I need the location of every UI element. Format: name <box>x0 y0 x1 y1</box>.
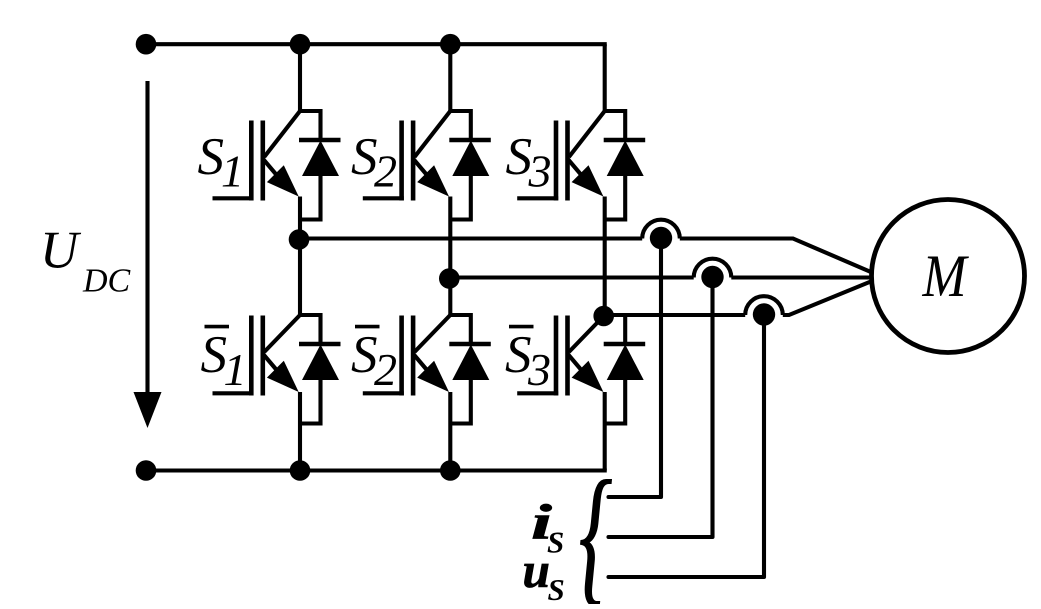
IGBT S̅2 (lower) emitter arrow <box>417 361 449 392</box>
svg-text:3: 3 <box>527 344 551 395</box>
IGBT S2 emitter line <box>414 160 431 180</box>
IGBT S3 emitter line <box>568 160 585 180</box>
diode of S̅3 (lower) triangle <box>607 345 644 381</box>
wire: phase 2 horizontal from leg 2 to sensor <box>450 275 693 279</box>
IGBT S3 collector diagonal <box>569 111 605 157</box>
IGBT S2 gate bar <box>399 121 404 201</box>
wire: leg 3 midpoint trunk (phase node) <box>603 197 607 316</box>
label S-bar 1 (overbar) <box>205 325 230 329</box>
diode of S1: top jog and anode-side wire <box>300 111 321 140</box>
IGBT S̅1 (lower) emitter line <box>264 355 281 375</box>
IGBT S̅2 (lower) collector diagonal <box>415 315 451 352</box>
wire: sensor 3 tap vertical <box>762 315 766 577</box>
IGBT S3 gate lead <box>517 196 558 200</box>
IGBT S2 gate lead <box>363 196 404 200</box>
svg-text:U: U <box>40 222 82 280</box>
wire: phase 1 horizontal from leg 1 to sensor <box>300 236 642 240</box>
svg-text:3: 3 <box>528 146 552 197</box>
svg-text:{: { <box>579 451 612 604</box>
IGBT S2 emitter arrow <box>417 165 449 196</box>
IGBT S1 collector diagonal <box>264 111 300 157</box>
diode of S̅1 (lower): bottom wire and jog back to trunk <box>300 380 321 424</box>
diode of S̅1 (lower) triangle <box>302 345 339 381</box>
wire: leg 1 midpoint trunk (phase node) <box>298 197 302 316</box>
IGBT S̅1 (lower) gate lead <box>213 391 254 395</box>
IGBT S̅3 (lower) gate bar <box>554 316 559 396</box>
wire: positive DC rail (top) <box>146 42 607 46</box>
svg-text:1: 1 <box>224 344 247 395</box>
diode of S1 cathode bar <box>299 138 341 143</box>
current sensor 3 arc <box>745 296 783 315</box>
svg-text:S: S <box>548 572 565 604</box>
diode of S̅3 (lower) cathode bar <box>604 342 646 347</box>
diode of S3: bottom wire and jog back to trunk <box>605 176 626 220</box>
U_DC voltage arrow (line) <box>145 81 149 394</box>
IGBT S̅3 (lower) emitter arrow <box>572 361 604 392</box>
current sensor 1 arc <box>642 220 680 239</box>
diode of S3: top jog and anode-side wire <box>605 111 626 140</box>
svg-text:2: 2 <box>374 344 397 395</box>
diode of S̅3 (lower): bottom wire and jog back to trunk <box>605 380 626 424</box>
node: top rail junction dot 3 <box>440 34 461 55</box>
wire: phase 3 horizontal from leg 3 to sensor <box>605 313 746 317</box>
svg-text:DC: DC <box>82 263 131 300</box>
IGBT S̅2 (lower) emitter line <box>414 355 431 375</box>
IGBT S1 gate lead <box>213 196 254 200</box>
label S-bar 3 (overbar) <box>509 325 534 329</box>
IGBT S̅2 (lower) body bar <box>411 316 416 396</box>
IGBT S̅1 (lower) emitter arrow <box>267 361 299 392</box>
current sensor 2 arc <box>694 259 732 278</box>
svg-text:M: M <box>922 243 970 309</box>
wire: sensor 3 tap horizontal <box>609 575 765 579</box>
wire: leg 2 from top rail to upper IGBT <box>448 44 452 111</box>
diode of S1 triangle <box>302 141 339 177</box>
node: bottom rail junction dot 1 <box>136 460 157 481</box>
node: top rail junction dot 2 <box>290 34 311 55</box>
diode of S1: bottom wire and jog back to trunk <box>300 176 321 220</box>
wire: sensor 1 tap horizontal <box>609 495 662 499</box>
wire: sensor 2 tap horizontal <box>609 535 713 539</box>
current sensor 2 dot <box>701 266 723 288</box>
diode of S̅1 (lower): top jog and anode-side wire <box>300 315 321 344</box>
wire: phase 3 from sensor to bend then to motor <box>783 281 872 315</box>
diode of S2: bottom wire and jog back to trunk <box>450 176 471 220</box>
wire: leg 3 from top rail to upper IGBT <box>603 44 607 111</box>
IGBT S1 emitter line <box>264 160 281 180</box>
svg-text:u: u <box>523 542 551 598</box>
wire: leg 2 from lower IGBT to bottom rail <box>448 392 452 471</box>
IGBT S3 body bar <box>565 121 570 201</box>
IGBT S̅3 (lower) collector diagonal <box>569 315 605 352</box>
IGBT S̅1 (lower) collector diagonal <box>264 315 300 352</box>
U_DC voltage arrow (head) <box>134 392 162 428</box>
wire: negative DC rail (bottom) <box>146 468 607 472</box>
node: phase 1 junction dot <box>289 229 310 250</box>
svg-text:1: 1 <box>221 146 244 197</box>
label S-bar 2 (overbar) <box>355 325 380 329</box>
IGBT S2 body bar <box>411 121 416 201</box>
wire: leg 3 from lower IGBT to bottom rail <box>603 392 607 471</box>
current sensor 3 dot <box>753 303 775 325</box>
IGBT S̅2 (lower) gate bar <box>399 316 404 396</box>
IGBT S2 collector diagonal <box>415 111 451 157</box>
IGBT S̅1 (lower) body bar <box>260 316 265 396</box>
wire: leg 1 from top rail to upper IGBT <box>298 44 302 111</box>
IGBT S1 gate bar <box>249 121 254 201</box>
wire: sensor 1 tap vertical <box>659 239 663 498</box>
wire: sensor 2 tap vertical <box>710 278 714 538</box>
IGBT S̅1 (lower) gate bar <box>249 316 254 396</box>
diode of S̅2 (lower) cathode bar <box>449 342 491 347</box>
wire: phase 1 from sensor to bend then to motor <box>680 239 872 273</box>
diode of S̅2 (lower): bottom wire and jog back to trunk <box>450 380 471 424</box>
IGBT S3 gate bar <box>554 121 559 201</box>
IGBT S̅3 (lower) body bar <box>565 316 570 396</box>
IGBT S̅2 (lower) gate lead <box>363 391 404 395</box>
node: top rail junction dot 1 <box>136 34 157 55</box>
diode of S3 triangle <box>607 141 644 177</box>
diode of S3 cathode bar <box>604 138 646 143</box>
node: phase 2 junction dot <box>439 268 460 289</box>
svg-text:2: 2 <box>374 146 397 197</box>
diode of S̅1 (lower) cathode bar <box>299 342 341 347</box>
IGBT S1 emitter arrow <box>267 165 299 196</box>
motor M circle <box>872 200 1025 353</box>
IGBT S3 emitter arrow <box>572 165 604 196</box>
diode of S2 triangle <box>452 141 489 177</box>
wire: leg 2 midpoint trunk (phase node) <box>448 197 452 316</box>
node: phase 3 junction dot <box>593 306 614 327</box>
diode of S̅2 (lower): top jog and anode-side wire <box>450 315 471 344</box>
diode of S2 cathode bar <box>449 138 491 143</box>
diode of S̅2 (lower) triangle <box>452 345 489 381</box>
node: bottom rail junction dot 2 <box>290 460 311 481</box>
wire: phase 2 from sensor to motor <box>731 275 872 279</box>
current sensor 1 dot <box>650 227 672 249</box>
IGBT S1 body bar <box>260 121 265 201</box>
wire: leg 1 from lower IGBT to bottom rail <box>298 392 302 471</box>
node: bottom rail junction dot 3 <box>440 460 461 481</box>
diode of S2: top jog and anode-side wire <box>450 111 471 140</box>
IGBT S̅3 (lower) gate lead <box>517 391 558 395</box>
IGBT S̅3 (lower) emitter line <box>568 355 585 375</box>
diode of S̅3 (lower): top jog and anode-side wire <box>605 315 626 344</box>
